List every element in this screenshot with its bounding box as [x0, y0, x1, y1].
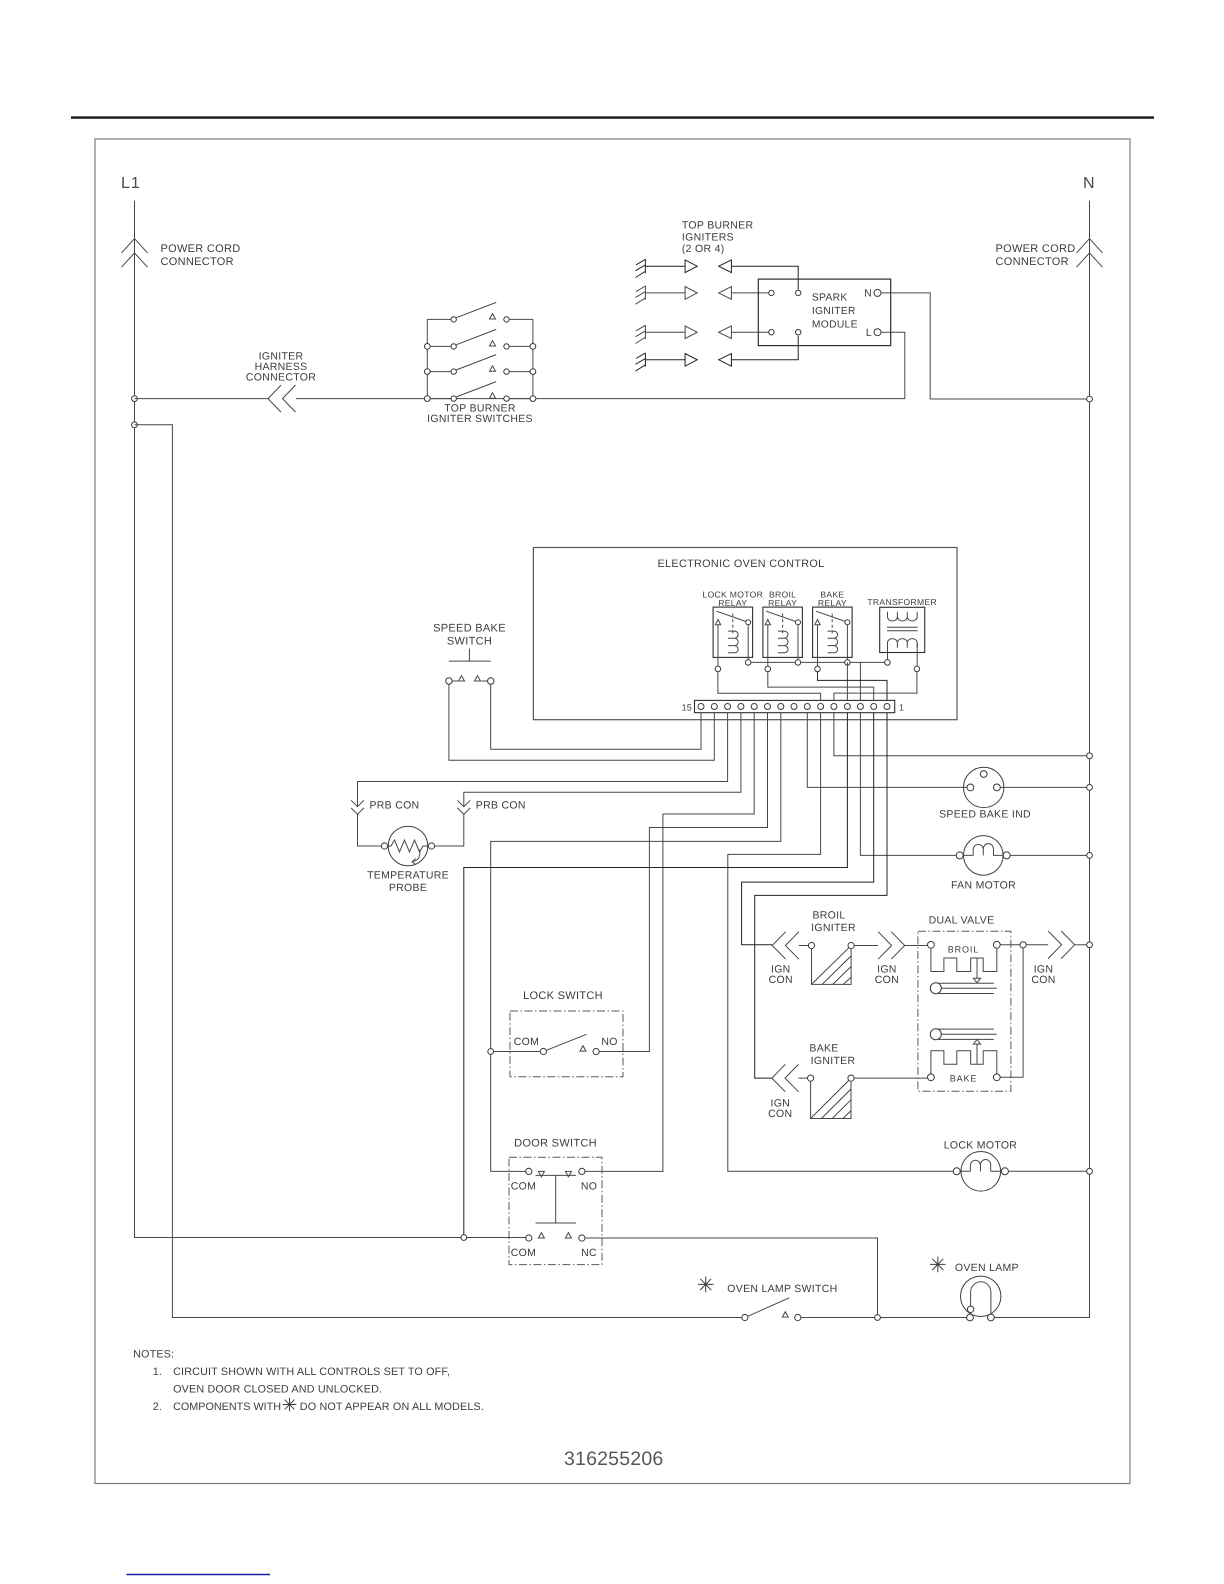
svg-text:IGNITERS: IGNITERS — [682, 231, 734, 243]
wire relay output bus — [748, 661, 887, 663]
svg-text:CON: CON — [1031, 974, 1055, 986]
igniter E1 row1 — [636, 259, 799, 289]
svg-text:COMPONENTS WITH: COMPONENTS WITH — [173, 1401, 281, 1413]
power cord connector N — [1077, 239, 1103, 268]
relay K3 bake relay — [813, 590, 853, 672]
svg-text:PRB CON: PRB CON — [476, 800, 526, 812]
svg-text:15: 15 — [682, 702, 692, 712]
motor B2 lock motor — [944, 1140, 1018, 1192]
igniter E4 row4 — [636, 336, 799, 371]
lamp E5 oven lamp — [930, 1257, 1019, 1321]
wire L1 rail — [135, 201, 529, 1238]
svg-text:BROIL: BROIL — [812, 910, 845, 922]
svg-text:PRB CON: PRB CON — [370, 800, 420, 812]
node junction valve outputs — [1020, 942, 1026, 948]
wire pin2 to broil igniter — [742, 713, 874, 945]
svg-text:CONNECTOR: CONNECTOR — [246, 372, 316, 384]
svg-text:BAKE: BAKE — [950, 1074, 978, 1084]
wire lock motor to N rail — [1008, 1170, 1086, 1172]
wire broil coil to pin2 — [768, 672, 874, 701]
svg-text:COM: COM — [511, 1247, 536, 1259]
wire L1 branch to lamp line — [135, 425, 745, 1318]
wire door NC to lamp line — [585, 1238, 878, 1314]
svg-text:LOCK MOTOR: LOCK MOTOR — [944, 1140, 1018, 1152]
speed bake switch S1 — [433, 623, 506, 685]
svg-text:NOTES:: NOTES: — [133, 1349, 174, 1361]
wire pin7 to speed bake ind — [807, 713, 967, 788]
node L1 junction a — [132, 396, 138, 402]
top burner igniter switches box — [427, 319, 533, 425]
svg-text:CON: CON — [768, 1108, 792, 1120]
power cord connector L1 — [122, 239, 148, 268]
igniter E2 row2 — [636, 286, 769, 304]
top rule — [71, 116, 1154, 118]
svg-text:PROBE: PROBE — [389, 882, 427, 894]
svg-text:TEMPERATURE: TEMPERATURE — [367, 870, 449, 882]
connector J1 strip — [682, 700, 905, 712]
svg-text:TOP BURNER: TOP BURNER — [682, 220, 754, 232]
switch SW2 row2 — [424, 329, 535, 349]
svg-text:POWER CORD: POWER CORD — [161, 243, 241, 255]
electronic oven control box — [533, 548, 957, 720]
wire N rail — [991, 201, 1089, 1318]
svg-text:SWITCH: SWITCH — [447, 636, 492, 648]
top burner igniters label — [682, 220, 754, 256]
wire lamp line mid — [880, 1317, 966, 1319]
svg-text:OVEN LAMP: OVEN LAMP — [955, 1262, 1019, 1274]
igniter harness connector — [268, 385, 296, 412]
wire pin14 to speed bake switch left — [449, 684, 714, 760]
svg-text:NO: NO — [581, 1181, 597, 1193]
svg-text:IGNITER SWITCHES: IGNITER SWITCHES — [427, 413, 533, 425]
wire broil valve to right ign con — [1000, 944, 1020, 946]
svg-text:BAKE: BAKE — [809, 1043, 838, 1055]
svg-text:L: L — [866, 327, 872, 339]
svg-text:LOCK SWITCH: LOCK SWITCH — [523, 990, 603, 1002]
svg-text:OVEN LAMP SWITCH: OVEN LAMP SWITCH — [727, 1283, 837, 1295]
wire bake valve right riser — [1000, 948, 1023, 1077]
svg-text:OVEN DOOR CLOSED AND UNLOCKED.: OVEN DOOR CLOSED AND UNLOCKED. — [173, 1384, 382, 1396]
svg-text:CON: CON — [875, 974, 899, 986]
node N junction y944 — [1087, 942, 1093, 948]
svg-text:SPEED BAKE: SPEED BAKE — [433, 623, 506, 635]
connector PRB CON right — [435, 800, 526, 847]
node N junction at y399 — [1087, 396, 1093, 402]
switch SW4 row4 — [424, 382, 535, 402]
svg-text:L1: L1 — [121, 175, 141, 192]
svg-text:DO NOT APPEAR ON ALL MODELS.: DO NOT APPEAR ON ALL MODELS. — [300, 1401, 484, 1413]
wire pin11 to door switch NO — [585, 713, 754, 1172]
relay K1 lock motor relay — [702, 590, 763, 672]
switch SW1 row1 — [427, 302, 533, 322]
wire pin10 to lock switch NO — [599, 713, 767, 1052]
node junction on L1 bottom wire — [461, 1235, 467, 1241]
wire pin13 to left probe connector — [358, 713, 728, 807]
wire module N to N rail — [881, 293, 1087, 399]
svg-text:MODULE: MODULE — [812, 320, 858, 331]
node L1 junction b — [132, 422, 138, 428]
border frame — [95, 139, 1130, 1484]
wire pin12 to right probe connector — [464, 713, 741, 807]
footer blue line — [127, 1574, 271, 1576]
svg-text:1: 1 — [899, 702, 904, 712]
wire speed bake ind to N rail — [1000, 786, 1086, 788]
wire transformer to pin5 — [834, 672, 917, 701]
wire pin4 to door switch lower junction — [464, 713, 848, 1235]
svg-text:(2 OR 4): (2 OR 4) — [682, 243, 725, 255]
notes text — [133, 1349, 484, 1414]
wire pin1 to bake igniter — [755, 713, 887, 1078]
svg-text:CIRCUIT SHOWN WITH ALL CONTROL: CIRCUIT SHOWN WITH ALL CONTROLS SET TO O… — [173, 1366, 450, 1378]
wire pin5 to N rail — [834, 713, 1087, 756]
svg-text:NO: NO — [601, 1036, 617, 1048]
svg-text:CONNECTOR: CONNECTOR — [996, 256, 1069, 268]
oven lamp switch S4 — [698, 1277, 875, 1321]
wire pin6 to lock motor — [728, 713, 953, 1172]
wire bake coil to pin1 — [818, 672, 888, 701]
igniter HTR2 bake igniter — [768, 1043, 927, 1121]
igniter E3 row3 — [636, 325, 769, 343]
svg-text:ELECTRONIC OVEN CONTROL: ELECTRONIC OVEN CONTROL — [657, 558, 824, 570]
svg-text:COM: COM — [511, 1181, 536, 1193]
svg-text:DOOR SWITCH: DOOR SWITCH — [514, 1138, 597, 1150]
svg-text:BROIL: BROIL — [948, 945, 980, 955]
svg-text:2.: 2. — [153, 1401, 162, 1413]
connector PRB CON left — [351, 800, 419, 847]
node junction lamp line — [875, 1315, 881, 1321]
svg-text:CONNECTOR: CONNECTOR — [161, 256, 234, 268]
svg-text:316255206: 316255206 — [564, 1448, 663, 1470]
svg-text:SPEED BAKE IND: SPEED BAKE IND — [939, 809, 1031, 821]
valve Y1 dual valve — [918, 915, 1011, 1092]
wire pin3 to fan motor — [860, 713, 956, 856]
svg-text:1.: 1. — [153, 1366, 162, 1378]
node N junction y787 — [1087, 785, 1093, 791]
relay K2 broil relay — [763, 590, 803, 672]
svg-text:CON: CON — [769, 974, 793, 986]
svg-text:NC: NC — [581, 1247, 597, 1259]
svg-text:IGNITER: IGNITER — [811, 922, 856, 934]
svg-text:POWER CORD: POWER CORD — [996, 243, 1076, 255]
switch SW3 row3 — [424, 355, 535, 375]
transformer T1 — [867, 597, 937, 672]
wire pin9 to lock switch COM — [491, 713, 781, 1172]
wire lock coil to pin6 — [718, 672, 821, 701]
temperature probe RT1 — [367, 826, 449, 894]
svg-text:RELAY: RELAY — [768, 598, 797, 608]
svg-text:TRANSFORMER: TRANSFORMER — [867, 597, 937, 607]
lock switch S2 — [488, 990, 623, 1077]
wire L1 main switched line — [135, 332, 905, 398]
indicator DS1 speed bake ind — [939, 767, 1031, 820]
svg-text:N: N — [864, 288, 872, 300]
svg-text:DUAL VALVE: DUAL VALVE — [929, 915, 995, 927]
svg-text:IGNITER: IGNITER — [811, 1055, 856, 1067]
wire pin15 to speed bake switch right — [491, 684, 701, 749]
wire bus to pin4 — [846, 662, 848, 700]
svg-text:COM: COM — [514, 1036, 539, 1048]
svg-text:IGNITER: IGNITER — [812, 306, 856, 317]
wire bus to pin3 — [859, 662, 861, 700]
node N junction y755.8 — [1087, 753, 1093, 759]
door switch S3 — [509, 1138, 602, 1265]
igniter HTR1 broil igniter — [769, 910, 928, 987]
motor B1 fan motor — [951, 836, 1016, 892]
connector IGN CON right — [1026, 931, 1086, 986]
wire fan motor to N rail — [1010, 854, 1086, 856]
spark igniter module U1 — [758, 279, 890, 346]
node N junction y1171 — [1087, 1168, 1093, 1174]
svg-text:N: N — [1083, 175, 1096, 192]
svg-text:FAN MOTOR: FAN MOTOR — [951, 880, 1016, 892]
node N junction y855 — [1087, 853, 1093, 859]
svg-text:RELAY: RELAY — [718, 598, 747, 608]
svg-text:SPARK: SPARK — [812, 293, 848, 304]
svg-text:RELAY: RELAY — [818, 598, 847, 608]
